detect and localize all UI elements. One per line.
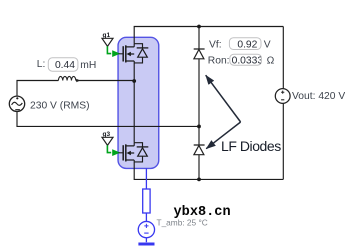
MOSFET Q1 (upper, with body diode) — [119, 44, 149, 63]
thermal resistor Rth — [143, 189, 150, 213]
svg-text:0.44: 0.44 — [55, 60, 75, 71]
svg-text:LF Diodes: LF Diodes — [221, 138, 281, 154]
wire: right rail through Vout — [282, 27, 284, 180]
diode D1 (top LF diode) — [194, 49, 205, 59]
node: bottom diode / bottom rail junction — [197, 178, 201, 182]
inductor L — [58, 76, 75, 80]
thermal wire from subsystem — [138, 168, 154, 244]
svg-text:mH: mH — [80, 60, 96, 71]
svg-text:Vf:: Vf: — [209, 40, 222, 51]
svg-text:0.92: 0.92 — [237, 40, 257, 51]
thermal ground — [138, 243, 154, 246]
signal port g3 — [102, 131, 120, 156]
svg-text:ybx8.cn: ybx8.cn — [174, 205, 231, 220]
svg-text:Ron:: Ron: — [208, 55, 230, 66]
wire: AC source bottom to diode-leg midpoint — [17, 112, 199, 127]
annotation arrow to bottom diode — [206, 122, 240, 149]
MOSFET Q3 (lower, with body diode) — [119, 143, 149, 162]
wire: between the two MOSFETs — [133, 63, 135, 143]
wire: diode leg — [198, 27, 200, 180]
node: AC / diode midpoint junction — [197, 125, 201, 129]
svg-text:Vout: 420 V: Vout: 420 V — [292, 91, 345, 102]
AC voltage source V_ac — [9, 96, 24, 111]
wire: lower source to bottom rail — [134, 162, 283, 180]
DC voltage source Vout — [275, 89, 290, 104]
svg-text:V: V — [264, 40, 271, 51]
wire: inductor to FET midpoint — [76, 80, 134, 82]
node: top rail / top diode junction — [197, 25, 201, 29]
svg-text:Ω: Ω — [267, 55, 275, 66]
node: inductor/FET midpoint junction — [132, 79, 136, 83]
diode D2 (bottom LF diode) — [194, 145, 205, 155]
annotation arrow to top diode — [206, 75, 241, 122]
subsystem highlight box (FET leg) — [118, 37, 159, 168]
wire: top rail (drain to top-right corner) — [134, 27, 283, 44]
svg-text:L:: L: — [37, 59, 46, 70]
temperature source T_amb — [138, 221, 154, 237]
svg-text:230 V (RMS): 230 V (RMS) — [30, 100, 90, 111]
signal port g1 — [102, 32, 120, 57]
wire: AC source top to inductor — [17, 81, 58, 96]
